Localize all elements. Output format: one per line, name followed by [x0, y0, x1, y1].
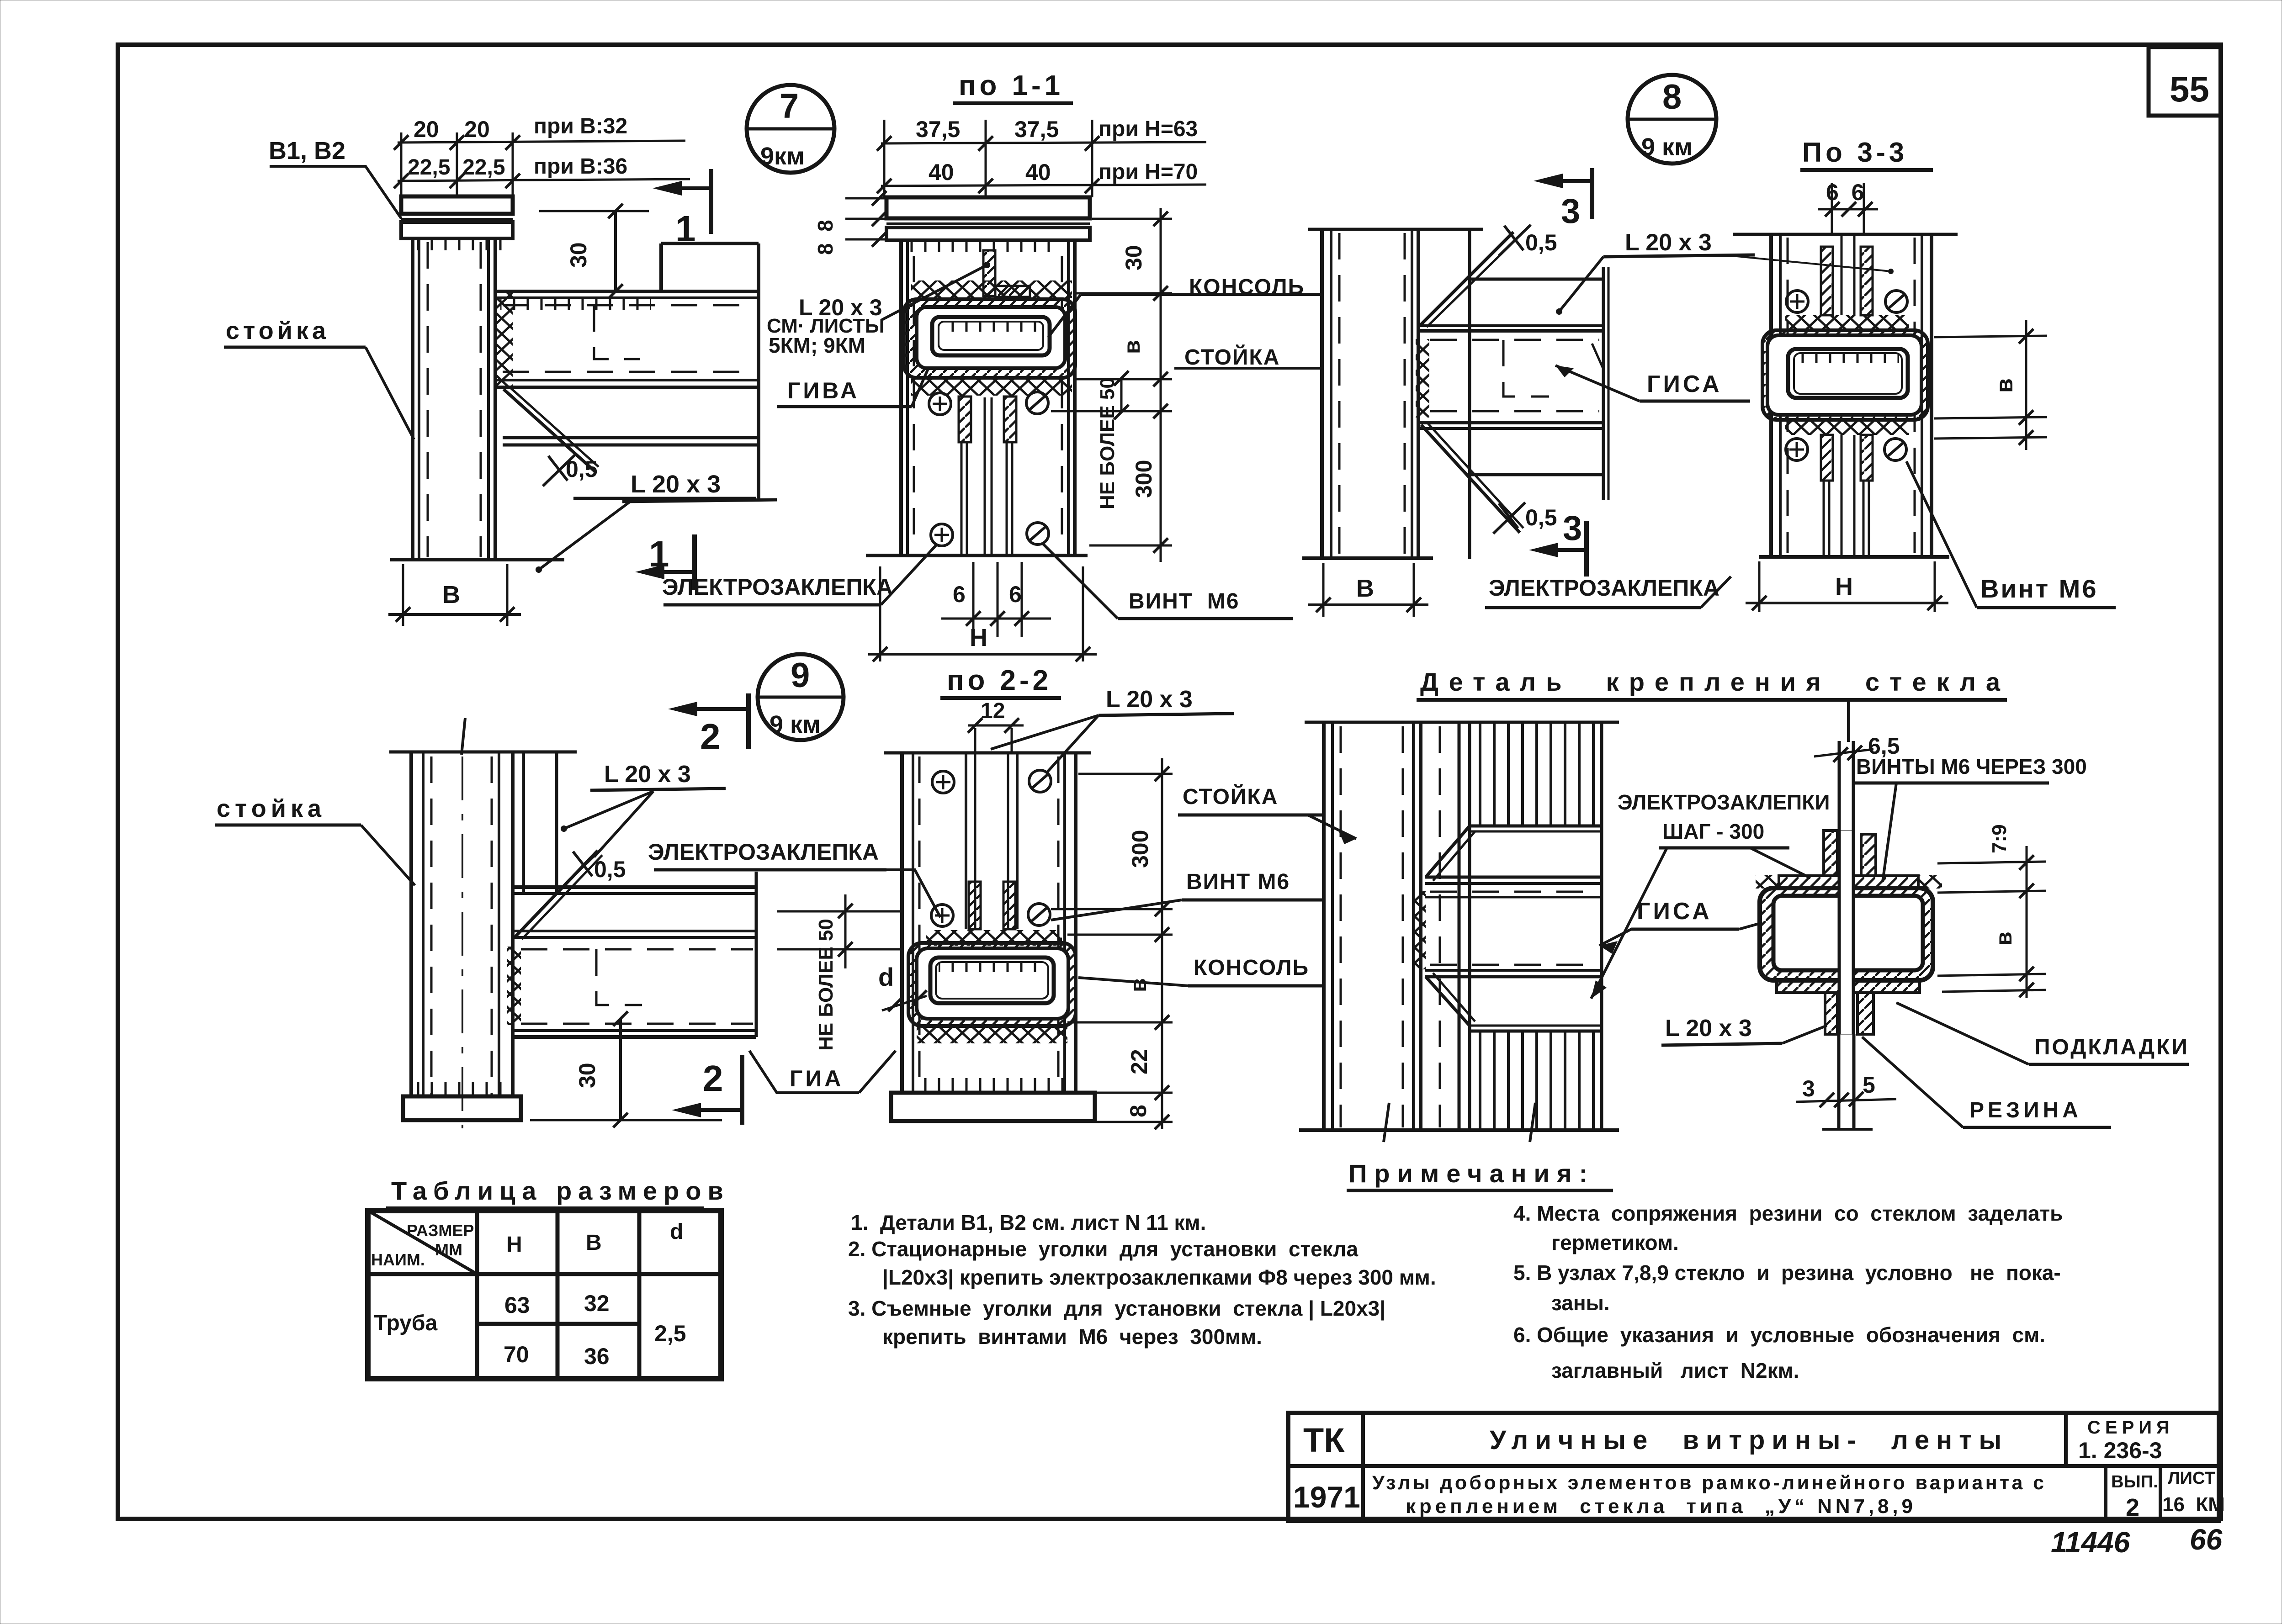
weld xxx strip plan — [1412, 891, 1426, 969]
section mark 3 top arrow — [1534, 174, 1563, 188]
svg-text:6. Общие указания и условны: 6. Общие указания и условные обозначения… — [1513, 1323, 2045, 1347]
leader rezina — [1862, 1037, 1963, 1127]
weld xxx strip node9 — [507, 947, 521, 1025]
rivet screw lower-left — [931, 524, 953, 546]
weld xxx strip column-beam — [497, 292, 513, 387]
leader vint M6 to lower-right screw — [1042, 543, 1118, 619]
svg-text:30: 30 — [1121, 245, 1146, 270]
svg-text:L 20 x 3: L 20 x 3 — [1665, 1015, 1752, 1042]
leaders L20x3 node9 — [564, 791, 653, 829]
svg-text:6: 6 — [953, 582, 966, 607]
top break line plan — [1305, 721, 1619, 724]
column cap band mid — [401, 218, 513, 221]
top plate mid line — [886, 222, 1090, 225]
svg-text:36: 36 — [584, 1344, 610, 1369]
svg-text:L 20 x 3: L 20 x 3 — [631, 471, 721, 498]
svg-text:32: 32 — [584, 1291, 610, 1316]
svg-text:5: 5 — [1863, 1072, 1875, 1098]
weld xxx row below pipe 2-2 — [917, 1027, 1067, 1043]
base plate 2-2 — [891, 1093, 1095, 1121]
title leader to glass — [1847, 700, 1850, 742]
dim line row1 — [398, 141, 685, 143]
table header diagonal — [368, 1211, 477, 1274]
svg-text:Н: Н — [970, 624, 987, 651]
svg-text:СТОЙКА: СТОЙКА — [1184, 344, 1280, 370]
node circle 7/9km — [747, 85, 834, 173]
svg-text:заны.: заны. — [1551, 1291, 1610, 1315]
svg-text:4. Места сопряжения резини: 4. Места сопряжения резини со стеклом за… — [1513, 1201, 2063, 1225]
diagonal brace top — [1420, 232, 1513, 325]
column base plate — [403, 1096, 521, 1120]
angle diagonal lower — [1426, 977, 1470, 1026]
leader thin to section 3-3 — [1732, 256, 1891, 271]
weld tick fringe under plate — [907, 240, 1058, 252]
clamp top flange — [1779, 876, 1918, 888]
clamp bottom angle leg right — [1857, 993, 1873, 1034]
screw upper-right — [1026, 392, 1048, 414]
leader stoyka 2-2 to plan column — [1308, 815, 1356, 839]
strip tails 3-3 — [1823, 481, 1825, 555]
svg-text:55: 55 — [2170, 69, 2209, 109]
screw top-left 2-2 — [932, 771, 954, 793]
column centreline — [462, 756, 463, 1128]
glass hatch band bottom — [1470, 1031, 1602, 1130]
dim v ext lines 3-3 — [1934, 336, 2047, 337]
svg-text:63: 63 — [504, 1292, 530, 1318]
leader L20x3 to beam — [1559, 257, 1603, 312]
leader shag-300 to plan glass — [1591, 848, 1667, 999]
svg-text:3. Съемные уголки для устан: 3. Съемные уголки для установки стекла |… — [848, 1296, 1385, 1320]
screw top-left 3-3 — [1786, 291, 1808, 312]
dim v vertical 3-3 — [2025, 320, 2027, 450]
vertical angle flag hatched — [983, 250, 995, 296]
table col line B — [556, 1211, 560, 1379]
band double line lower — [1425, 969, 1602, 972]
svg-text:2: 2 — [2126, 1494, 2139, 1521]
table data row split — [477, 1322, 639, 1326]
clamp top angle leg right — [1861, 834, 1876, 876]
svg-text:КОНСОЛЬ: КОНСОЛЬ — [1194, 956, 1309, 980]
column outer lines — [411, 238, 414, 560]
weld xxx left of top flange — [1756, 875, 1779, 889]
tick fringe inside pipe 3-3 — [1797, 354, 1899, 363]
top break line 2-2 — [884, 751, 1091, 755]
svg-text:9км: 9км — [760, 143, 805, 170]
svg-text:L 20 x 3: L 20 x 3 — [604, 761, 691, 788]
node circle 8/9km — [1628, 75, 1716, 164]
svg-text:1: 1 — [675, 208, 696, 249]
ground line node7 — [390, 558, 564, 561]
plan column outer lines — [1322, 722, 1326, 1130]
svg-text:Н: Н — [1835, 573, 1853, 600]
svg-text:РЕЗИНА: РЕЗИНА — [1969, 1098, 2082, 1122]
rivet screw upper-left — [929, 393, 951, 415]
leader elektrozaklepka 2-2 to mid-left screw — [886, 870, 940, 917]
svg-text:5. В узлах 7,8,9 стекло и ре: 5. В узлах 7,8,9 стекло и резина условно… — [1513, 1261, 2061, 1285]
svg-text:6: 6 — [1009, 582, 1022, 607]
section mark 1 bottom arrow — [635, 565, 664, 579]
pipe outer wall — [917, 307, 1065, 368]
svg-text:ВЫП.: ВЫП. — [2111, 1472, 2158, 1492]
ground line node8 — [1302, 556, 1433, 560]
rubber block core — [1773, 896, 1923, 970]
screw mid-left 2-2 — [931, 905, 953, 926]
leader konsol 2-2 — [1078, 978, 1188, 986]
leader gisa to plan glass — [1599, 929, 1631, 946]
beam top chord double line — [495, 290, 759, 293]
svg-text:стойка: стойка — [217, 795, 326, 822]
svg-text:7:9: 7:9 — [1988, 824, 2011, 853]
svg-text:ГИСА: ГИСА — [1637, 898, 1712, 925]
central glass slot verticals — [984, 397, 986, 554]
svg-text:Узлы доборных элементов рамко-: Узлы доборных элементов рамко-линейного … — [1372, 1472, 2044, 1494]
glass strip bottom — [1837, 1034, 1841, 1129]
svg-text:ГИА: ГИА — [790, 1066, 844, 1091]
leader stoyka node9 — [361, 825, 415, 885]
beam lower chord double — [1418, 421, 1603, 424]
svg-text:В: В — [442, 581, 460, 608]
svg-text:9 км: 9 км — [770, 711, 821, 738]
beam dashed step node9 — [596, 949, 642, 1005]
svg-text:2. Стационарные уголки для: 2. Стационарные уголки для установки сте… — [848, 1237, 1358, 1261]
table header row line — [368, 1272, 721, 1276]
leader vint M6 2-2 — [1051, 900, 1182, 920]
screw bottom-left 3-3 — [1786, 439, 1808, 460]
inner hatched strip right top — [1861, 247, 1873, 315]
leader vinty M6 — [1883, 783, 1896, 882]
top plate band 2 — [886, 227, 1090, 240]
right dim ext lines 2-2 — [1078, 773, 1173, 775]
svg-text:30: 30 — [574, 1063, 600, 1088]
leader shag-300 to clamp — [1750, 848, 1810, 878]
leader GIVA — [912, 305, 956, 407]
svg-text:3: 3 — [1802, 1076, 1815, 1101]
svg-text:По 3-3: По 3-3 — [1802, 137, 1908, 168]
title block col divider vyp — [2104, 1466, 2107, 1521]
glass band top bottom edge — [1470, 825, 1602, 828]
break tick marks on ground — [1384, 1103, 1389, 1142]
svg-text:22: 22 — [1126, 1049, 1152, 1074]
svg-text:В: В — [586, 1231, 602, 1255]
hatched strips in slot 2-2 — [969, 882, 981, 929]
central slot verticals below pipe — [1841, 435, 1843, 555]
svg-text:Уличные витрины- ленты: Уличные витрины- ленты — [1490, 1425, 2001, 1455]
shelf bottom line — [573, 497, 756, 500]
svg-text:РАЗМЕР: РАЗМЕР — [407, 1221, 474, 1240]
column dashed lines node8 — [1338, 233, 1341, 555]
svg-text:300: 300 — [1127, 830, 1153, 868]
weld xxx row above pipe 2-2 — [926, 930, 1062, 946]
glass right edge — [1600, 722, 1603, 1130]
dim B line — [388, 613, 521, 616]
tick fringe inside pipe 2-2 — [939, 963, 1045, 972]
dim line row2 — [398, 179, 690, 181]
section mark 1 top arrow — [653, 181, 682, 196]
leader L20x3 to shelf — [539, 502, 630, 570]
svg-text:при Н=63: при Н=63 — [1099, 117, 1198, 141]
svg-text:37,5: 37,5 — [916, 116, 960, 142]
svg-text:по 2-2: по 2-2 — [947, 665, 1052, 696]
svg-text:40: 40 — [1025, 159, 1051, 185]
svg-text:ГИВА: ГИВА — [787, 378, 860, 403]
beam dashed line 2 node9 — [521, 1023, 753, 1025]
ground line section 1-1 — [866, 554, 1088, 557]
leader GISA to beam dashes — [1555, 365, 1640, 401]
weld xxx right of top flange — [1918, 875, 1942, 889]
svg-text:стойка: стойка — [226, 317, 329, 344]
clamp bottom flange — [1777, 980, 1920, 993]
central slot verticals — [1841, 234, 1843, 315]
title block outer box — [1288, 1413, 2219, 1521]
svg-text:Примечания:: Примечания: — [1348, 1159, 1595, 1188]
svg-text:ЭЛЕКТРОЗАКЛЕПКА: ЭЛЕКТРОЗАКЛЕПКА — [648, 839, 879, 865]
pipe outer wall 2-2 — [917, 948, 1068, 1019]
section outer verticals 2-2 — [900, 753, 904, 1093]
central slot verticals 2-2 — [965, 753, 967, 929]
svg-text:ВИНТЫ М6 ЧЕРЕЗ 300: ВИНТЫ М6 ЧЕРЕЗ 300 — [1856, 755, 2087, 778]
svg-text:НЕ БОЛЕЕ 50: НЕ БОЛЕЕ 50 — [815, 919, 837, 1051]
top break line node8 — [1308, 228, 1483, 231]
section mark 2 top — [668, 702, 697, 716]
dashed verticals 2-2 — [918, 756, 921, 1090]
svg-text:ЭЛЕКТРОЗАКЛЕПКА: ЭЛЕКТРОЗАКЛЕПКА — [1489, 575, 1719, 601]
dashed verticals 3-3 — [1787, 238, 1789, 553]
beam bottom chord double line — [495, 379, 759, 381]
column cap band bottom — [401, 222, 513, 238]
beam bottom double line node9 — [513, 1029, 756, 1032]
svg-text:1. 236-3: 1. 236-3 — [2078, 1438, 2162, 1463]
pipe bore 2-2 — [936, 962, 1048, 999]
table outer box — [368, 1211, 721, 1379]
pipe bore 3-3 — [1794, 353, 1902, 394]
leader vint M6 to screw — [1906, 461, 1977, 608]
svg-text:ЭЛЕКТРОЗАКЛЕПКИ: ЭЛЕКТРОЗАКЛЕПКИ — [1618, 790, 1830, 814]
top break line node9 — [389, 751, 577, 754]
screw lower-right — [1027, 523, 1049, 545]
glass band bottom top edge — [1470, 1025, 1602, 1027]
svg-text:3: 3 — [1561, 192, 1580, 231]
centre tick above column — [462, 718, 465, 755]
weld tick fringe under cap — [407, 238, 507, 250]
beam lower dashed line — [503, 371, 754, 373]
svg-text:L 20 x 3: L 20 x 3 — [1106, 686, 1193, 713]
pipe inner wall — [932, 317, 1050, 355]
svg-text:при Н=70: при Н=70 — [1099, 160, 1198, 184]
svg-text:d: d — [670, 1220, 683, 1244]
svg-text:ПОДКЛАДКИ: ПОДКЛАДКИ — [2034, 1035, 2189, 1059]
svg-text:L 20 x 3: L 20 x 3 — [1625, 229, 1712, 256]
svg-text:|L20x3| крепить электрозаклепк: |L20x3| крепить электрозаклепками Ф8 чер… — [882, 1265, 1436, 1289]
glass holder strip verticals — [1439, 726, 1441, 1127]
dim B line node8 — [1308, 603, 1428, 606]
inner hatched strip left bottom — [1821, 435, 1833, 481]
weld xxx row above pipe — [911, 280, 1072, 298]
beam dashed step middle — [1503, 340, 1549, 397]
pipe inner wall 3-3 — [1788, 349, 1908, 398]
band double line upper — [1425, 876, 1602, 879]
pipe hatch ring — [904, 299, 1075, 378]
right dim vertical 2-2 — [1161, 758, 1163, 1129]
glass hatch band top — [1470, 722, 1602, 826]
dashed glass line upper — [1430, 891, 1598, 893]
svg-text:при В:36: при В:36 — [534, 154, 627, 179]
svg-text:9: 9 — [791, 656, 810, 695]
svg-text:В1, В2: В1, В2 — [269, 137, 345, 164]
dim ticks row1 — [394, 135, 409, 150]
diagonal brace node9 — [515, 851, 598, 936]
node circle 9/9km — [758, 654, 844, 740]
dashed step inside beam — [594, 305, 640, 359]
beam top line node8 — [1470, 278, 1603, 281]
svg-text:2,5: 2,5 — [654, 1321, 686, 1346]
side plate vertical — [1468, 229, 1471, 559]
svg-text:ТК: ТК — [1303, 1421, 1345, 1459]
svg-text:НЕ БОЛЕЕ 50: НЕ БОЛЕЕ 50 — [1096, 377, 1119, 509]
inner dashed verticals — [913, 256, 915, 548]
svg-text:66: 66 — [2190, 1523, 2223, 1556]
svg-text:в: в — [1991, 378, 2018, 393]
inner strip tails — [961, 442, 963, 554]
leader elektrozaklepka to lower-left screw — [881, 545, 937, 605]
svg-text:0,5: 0,5 — [594, 857, 626, 882]
dim line row1 — [881, 142, 1206, 143]
beam second double line node9 — [513, 930, 756, 932]
table col line H — [475, 1211, 479, 1379]
inner hatched strip right — [1004, 397, 1016, 442]
svg-text:0,5: 0,5 — [1525, 505, 1557, 530]
ground line 3-3 — [1759, 555, 1949, 559]
inner hatched strip left — [959, 397, 971, 442]
svg-text:СЕРИЯ: СЕРИЯ — [2087, 1418, 2174, 1438]
clamp bottom angle leg left — [1825, 993, 1837, 1034]
svg-text:В: В — [1356, 575, 1374, 602]
glass bottom end line — [1822, 1128, 1873, 1131]
svg-text:12: 12 — [981, 699, 1005, 723]
pipe hatch ring 2-2 — [908, 943, 1076, 1026]
top plate band 1 — [886, 197, 1090, 218]
pipe hatch ring 3-3 — [1762, 330, 1928, 420]
title block col divider series — [2064, 1413, 2068, 1466]
svg-text:7: 7 — [780, 87, 799, 126]
svg-text:9 км: 9 км — [1641, 133, 1693, 161]
svg-text:при В:32: при В:32 — [534, 114, 627, 138]
diagonal brace — [504, 389, 595, 471]
svg-text:d: d — [878, 963, 894, 991]
svg-text:Таблица размеров: Таблица размеров — [391, 1176, 730, 1205]
screw top-right 3-3 — [1885, 291, 1907, 312]
notch box on beam end — [661, 242, 759, 245]
leaders L20x3 2-2 — [991, 715, 1099, 749]
column inner dashed lines — [427, 242, 429, 557]
outer verticals 3-3 — [1769, 234, 1773, 557]
svg-text:ММ: ММ — [435, 1240, 462, 1259]
weld xxx above pipe 3-3 — [1785, 315, 1909, 330]
beam bottom line — [1470, 473, 1603, 476]
svg-text:2: 2 — [703, 1058, 723, 1099]
leader B1,B2 — [270, 166, 401, 218]
leader podkladki — [1896, 1003, 2029, 1064]
svg-text:заглавный лист N2км.: заглавный лист N2км. — [1551, 1359, 1799, 1382]
top edge line 3-3 — [1733, 233, 1958, 236]
svg-text:Винт М6: Винт М6 — [1980, 574, 2098, 603]
svg-text:ЛИСТ: ЛИСТ — [2168, 1469, 2215, 1488]
svg-text:5КМ; 9КМ: 5КМ; 9КМ — [769, 333, 865, 357]
screw mid-right 2-2 — [1028, 904, 1050, 926]
tick fringe inside pipe — [941, 323, 1041, 332]
svg-text:креплением стекла типа „У“: креплением стекла типа „У“ NN7,8,9 — [1406, 1495, 1913, 1518]
band line below dash — [1425, 896, 1602, 899]
beam dashed top — [1430, 339, 1599, 341]
dim ticks row2 — [394, 174, 409, 188]
pipe bore line — [939, 322, 1043, 350]
right dim ext lines — [1092, 218, 1172, 220]
dashed glass line lower — [1430, 964, 1598, 966]
svg-text:в: в — [1991, 931, 2017, 946]
svg-text:Труба: Труба — [374, 1311, 438, 1335]
dim ext verticals — [400, 132, 403, 196]
dim B ext lines node8 — [1322, 563, 1325, 617]
leader L20x3 detail — [1782, 1026, 1827, 1043]
svg-text:1971: 1971 — [1293, 1480, 1360, 1514]
svg-text:в: в — [1119, 340, 1145, 354]
lower shelf double line — [503, 436, 759, 439]
small arrow on dashed line — [1592, 344, 1603, 368]
svg-text:ШАГ - 300: ШАГ - 300 — [1662, 820, 1764, 843]
tick fringe under beam top chord — [500, 299, 651, 310]
svg-text:37,5: 37,5 — [1014, 116, 1059, 142]
dim B ext lines — [402, 564, 404, 626]
dim ext verticals — [883, 120, 886, 197]
svg-text:ВИНТ М6: ВИНТ М6 — [1186, 870, 1290, 894]
screw top-right 2-2 — [1029, 770, 1051, 792]
leader gisa to rubber block — [1739, 923, 1762, 929]
pipe inner wall 2-2 — [930, 957, 1054, 1003]
svg-text:8: 8 — [1125, 1105, 1151, 1117]
right dim vertical line — [1160, 208, 1162, 562]
diagonal brace bottom — [1421, 425, 1520, 533]
inner hatched strip right bottom — [1861, 435, 1873, 481]
svg-text:НАИМ.: НАИМ. — [371, 1250, 425, 1269]
svg-text:ЭЛЕКТРОЗАКЛЕПКА: ЭЛЕКТРОЗАКЛЕПКА — [662, 574, 893, 600]
angle strip right of column — [522, 752, 525, 894]
svg-text:3: 3 — [1563, 509, 1582, 548]
ground line plan — [1299, 1128, 1619, 1132]
svg-text:8 8: 8 8 — [813, 220, 837, 255]
column outer lines node8 — [1320, 229, 1324, 558]
beam chord double — [1418, 324, 1603, 327]
svg-text:СТОЙКА: СТОЙКА — [1183, 784, 1278, 809]
section outer verticals — [899, 241, 903, 555]
svg-text:Деталь крепления стекла: Деталь крепления стекла — [1420, 667, 2010, 696]
dim line row2 — [881, 185, 1206, 186]
svg-text:0,5: 0,5 — [1525, 230, 1557, 255]
beam end vertical node9 — [755, 872, 758, 1037]
beam dashed line 1 node9 — [521, 948, 753, 951]
svg-text:ГИСА: ГИСА — [1647, 371, 1722, 397]
svg-text:40: 40 — [929, 159, 954, 185]
beam dashed bottom — [1430, 410, 1599, 413]
weld tick fringe above base — [414, 1082, 510, 1096]
svg-text:ВИНТ М6: ВИНТ М6 — [1129, 589, 1240, 614]
screw bottom-right 3-3 — [1884, 439, 1906, 460]
weld xxx strip node8 — [1416, 339, 1429, 418]
pipe outer wall 3-3 — [1767, 335, 1921, 415]
ext verticals to section — [1831, 183, 1833, 234]
title block row divider — [1288, 1464, 2219, 1468]
beam end verticals — [1602, 267, 1605, 500]
short dim line 50 — [1120, 378, 1123, 412]
column dashed lines node9 — [430, 756, 433, 1095]
